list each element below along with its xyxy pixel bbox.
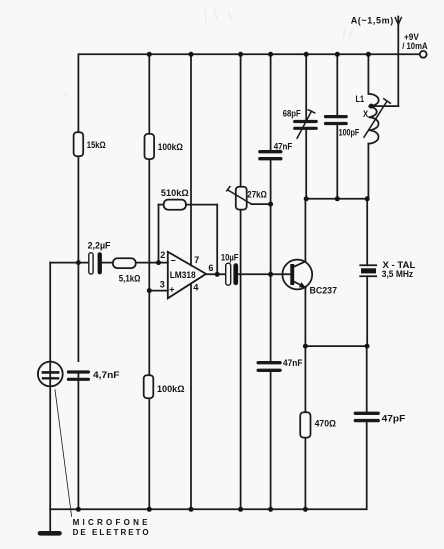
wire rail to L1 <box>367 54 369 94</box>
svg-text:LM318: LM318 <box>170 270 196 280</box>
svg-text:100pF: 100pF <box>339 128 360 138</box>
node R1 input <box>76 260 81 265</box>
capacitor C9 47pF <box>355 412 378 415</box>
svg-text:4: 4 <box>193 283 198 293</box>
wire C6 to base node <box>270 161 272 361</box>
node C7 bottom rail <box>268 507 273 512</box>
resistor R4 510k <box>164 200 186 210</box>
svg-text:470Ω: 470Ω <box>315 419 336 429</box>
transistor Q1 BC237 <box>282 260 312 290</box>
wire P2 wiper to base node <box>251 203 270 205</box>
svg-text:DE ELETRETO: DE ELETRETO <box>73 528 149 537</box>
L1 adjustable core arrow <box>364 99 390 137</box>
wire R3 to pin 2 <box>136 262 168 264</box>
svg-text:2: 2 <box>160 250 165 260</box>
ground <box>40 531 60 536</box>
resistor R5 100k <box>144 375 154 398</box>
svg-text:100kΩ: 100kΩ <box>158 142 183 152</box>
capacitor C5 10uF <box>226 263 231 285</box>
wire feedback right vertical <box>216 205 218 275</box>
node pin 3 <box>147 288 152 293</box>
wire microphone vertical branch <box>49 263 51 532</box>
capacitor C8 100pF <box>326 115 347 118</box>
capacitor C4 4,7nF <box>68 370 88 373</box>
wire pin 3 <box>149 290 168 292</box>
node R6 bottom rail <box>303 507 308 512</box>
svg-text:3,5 MHz: 3,5 MHz <box>382 269 414 279</box>
wire L1 to tank bus <box>367 144 369 199</box>
svg-text:2,2µF: 2,2µF <box>88 240 111 250</box>
svg-text:/ 10mA: / 10mA <box>402 41 428 51</box>
trimpot P2 27k body <box>236 187 247 210</box>
node C8 rail <box>335 52 340 57</box>
node C6 rail <box>268 52 273 57</box>
svg-text:4,7nF: 4,7nF <box>93 370 120 380</box>
svg-text:6: 6 <box>208 263 213 273</box>
node emitter junction <box>303 344 308 349</box>
wire rail to C8 <box>336 54 338 115</box>
node pin 2 feedback <box>156 260 161 265</box>
node L1 tap <box>369 104 374 109</box>
capacitor C6 47nF <box>260 150 281 153</box>
wire junction to C9 <box>366 346 368 412</box>
microphone MIC electret <box>38 362 63 387</box>
node R2 rail <box>147 52 152 57</box>
wire R5 to bottom rail <box>148 398 150 509</box>
node R5 bottom rail <box>147 507 152 512</box>
wire tank bus <box>306 198 367 200</box>
svg-text:47pF: 47pF <box>382 414 406 424</box>
node P2 wiper <box>268 202 273 207</box>
wire emitter junction line <box>305 345 367 347</box>
resistor R2 100k <box>145 134 155 159</box>
wire C4 to bottom rail <box>77 372 79 509</box>
svg-text:3: 3 <box>160 279 165 289</box>
inductor L1 <box>368 94 378 144</box>
node P2 bottom rail <box>238 507 243 512</box>
resistor R6 470 <box>300 412 310 437</box>
wire C9 to bottom rail <box>366 422 368 509</box>
svg-text:−: − <box>171 256 176 266</box>
svg-text:100kΩ: 100kΩ <box>157 384 185 394</box>
wire C1 to R3 <box>102 262 113 264</box>
svg-text:68pF: 68pF <box>283 109 301 119</box>
wire bottom ground rail <box>50 508 366 510</box>
node tank bus middle <box>335 196 340 201</box>
node Q1 base <box>268 272 273 277</box>
svg-text:MICROFONE: MICROFONE <box>73 518 149 527</box>
svg-text:5,1kΩ: 5,1kΩ <box>119 274 141 284</box>
wire L1 tap to antenna <box>371 105 398 107</box>
node CV1 rail <box>304 52 309 57</box>
svg-text:10µF: 10µF <box>221 252 239 262</box>
callout line microphone <box>55 390 72 517</box>
svg-text:27kΩ: 27kΩ <box>247 189 267 199</box>
svg-text:+: + <box>169 285 174 295</box>
terminal +9V supply <box>420 51 427 58</box>
wire rail to R2 <box>148 54 150 134</box>
node tank bus right <box>365 196 370 201</box>
wire tank bus to Q1 collector <box>304 199 306 262</box>
resistor R1 15k <box>74 132 84 156</box>
capacitor C7 47nF <box>258 361 280 364</box>
svg-text:7: 7 <box>194 255 199 265</box>
resistor R3 5,1k <box>113 258 136 268</box>
node xtal junction <box>365 344 370 349</box>
capacitor C1 2,2uF <box>89 253 93 274</box>
node C4 bottom rail <box>76 507 81 512</box>
trimpot P2 wiper arrow <box>227 187 252 204</box>
wire rail to C6 <box>270 54 272 150</box>
wire Q1 emitter down <box>304 288 306 413</box>
svg-text:L1: L1 <box>356 94 365 104</box>
wire CV1 to tank bus <box>305 130 307 199</box>
wire antenna lead <box>397 17 399 107</box>
wire rail to CV1 <box>305 54 307 120</box>
wire feedback to R4 <box>159 204 164 206</box>
wire pin 4 to bottom rail <box>190 285 192 510</box>
crystal X1 3,5MHz <box>360 264 376 266</box>
trimmer capacitor CV1 68pF <box>295 120 317 123</box>
wire P2 to bottom rail <box>240 210 242 510</box>
svg-text:47nF: 47nF <box>283 358 303 368</box>
node output feedback <box>215 272 220 277</box>
wire pin 6 output to C5 <box>206 273 226 275</box>
wire X1 to emitter junction <box>366 276 368 346</box>
op-amp U1 LM318 <box>168 252 206 298</box>
svg-text:15kΩ: 15kΩ <box>87 140 106 150</box>
wire top supply rail <box>79 53 420 55</box>
wire C5 to Q1 base <box>238 273 290 275</box>
node pin4 bottom rail <box>189 507 194 512</box>
wire R4 to output branch <box>186 204 217 206</box>
svg-text:47nF: 47nF <box>274 141 293 151</box>
svg-text:X: X <box>363 109 368 119</box>
wire tank bus to X1 <box>366 199 368 265</box>
node pin7 rail <box>189 52 194 57</box>
svg-text:510kΩ: 510kΩ <box>161 188 189 198</box>
node tank bus left <box>304 196 309 201</box>
node L1 rail <box>366 52 371 57</box>
svg-text:A(~1,5m): A(~1,5m) <box>351 16 394 26</box>
wire C7 to bottom rail <box>270 372 272 509</box>
wire rail to P2 <box>240 54 242 186</box>
wire rail to R1 <box>77 54 79 132</box>
node P2 rail <box>238 52 243 57</box>
antenna arrow A <box>395 18 401 25</box>
wire pin 7 to rail <box>190 54 192 265</box>
wire R2 to R5 <box>148 159 150 375</box>
wire R1 to input node <box>77 156 79 361</box>
svg-text:BC237: BC237 <box>310 285 338 295</box>
wire C8 to tank bus <box>336 125 338 199</box>
wire input line mic to C1 <box>50 262 89 264</box>
wire R6 to bottom rail <box>304 438 306 510</box>
wire feedback left vertical <box>158 205 160 263</box>
